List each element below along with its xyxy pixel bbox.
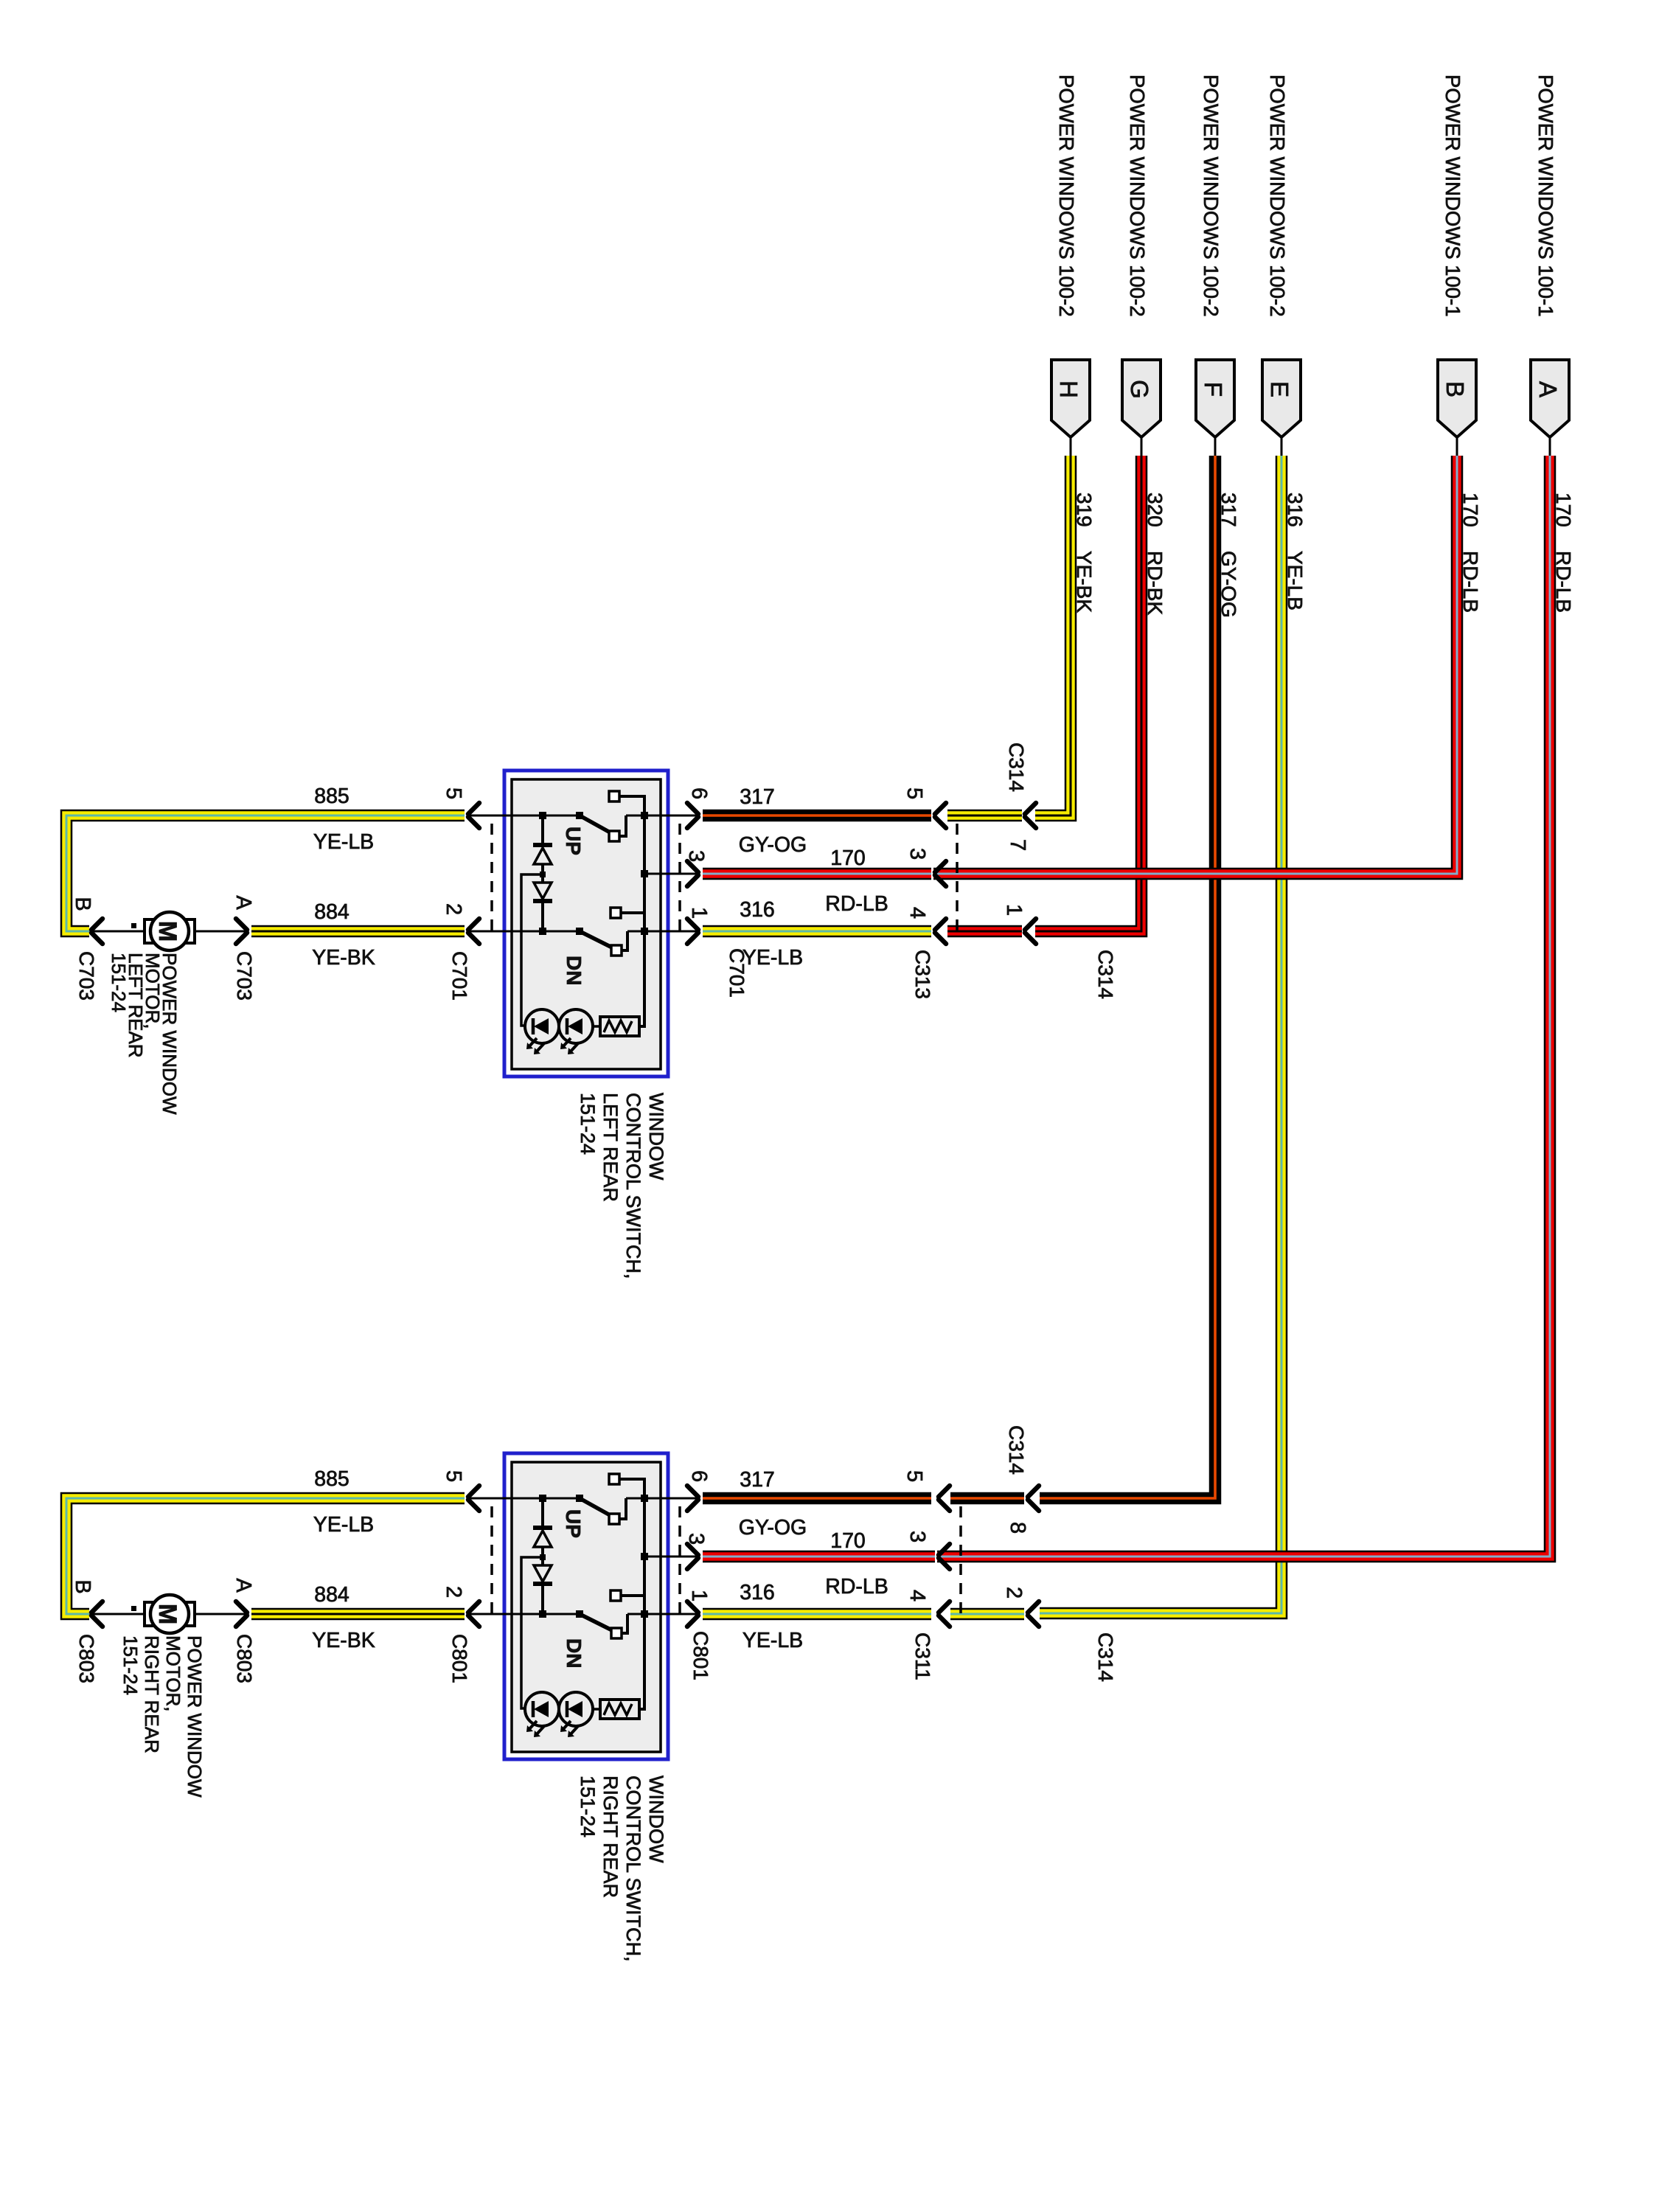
wire 320 RD-BK column from G: [1035, 456, 1141, 931]
svg-text:CONTROL SWITCH,: CONTROL SWITCH,: [622, 1093, 644, 1279]
in-line connector C311 pin 4 arrow: [905, 1590, 950, 1627]
svg-text:GY-OG: GY-OG: [739, 1516, 807, 1540]
wire 317 GY-OG switch pin6 to C313 (left): [703, 810, 931, 822]
in-line connector C314 pin 1 arrow (left): [1002, 904, 1036, 944]
in-line connector C311 pin 3 arrow: [905, 1531, 950, 1569]
svg-text:C314: C314: [1094, 950, 1117, 999]
switch pin 5 (right): [442, 1470, 504, 1511]
wire 885 YE-LB motor loop (left): [66, 815, 465, 931]
svg-text:317: 317: [740, 1468, 775, 1492]
svg-text:151-24: 151-24: [119, 1635, 142, 1695]
wire labels 885/884 (left): [312, 785, 375, 970]
svg-text:A: A: [232, 895, 255, 910]
svg-text:8: 8: [1006, 1522, 1029, 1534]
svg-text:A: A: [232, 1578, 255, 1593]
diode D1 (up limit) right: [533, 1495, 552, 1565]
switch pin 1 (left): [668, 907, 711, 944]
svg-text:M: M: [153, 1604, 181, 1624]
svg-text:170: 170: [830, 846, 866, 870]
wire 317 GY-OG column from F: [1040, 456, 1215, 1498]
component label: window control switch, left rear 151-24: [577, 1093, 667, 1279]
LED indicator 1 (right): [525, 1692, 559, 1737]
svg-text:885: 885: [314, 1467, 349, 1491]
svg-text:RIGHT REAR: RIGHT REAR: [599, 1775, 622, 1898]
in-line connector C314 pin 7 arrow (left): [1006, 803, 1036, 851]
switch pin 3 (right): [668, 1533, 708, 1569]
svg-text:1: 1: [1002, 904, 1026, 916]
connector name label C311: [911, 1632, 934, 1680]
off-page connector tag A (POWER WINDOWS 100-1): [1531, 360, 1569, 457]
switch connector C801 labels: [448, 1631, 712, 1683]
svg-text:UP: UP: [562, 1509, 585, 1538]
wire 170 RD-LB column from B: [933, 456, 1457, 874]
switch internal wiring (right): [469, 1479, 698, 1614]
wire 316 YE-LB switch pin1 to C313 (left): [703, 925, 931, 938]
svg-text:3: 3: [684, 850, 708, 862]
switch pin 6 (left): [668, 787, 711, 828]
svg-text:B: B: [1441, 381, 1469, 397]
svg-text:4: 4: [905, 1590, 929, 1601]
svg-text:YE-LB: YE-LB: [313, 830, 374, 854]
diode D2 (down limit) left: [533, 872, 552, 935]
svg-text:DN: DN: [563, 956, 585, 985]
switch connector C701 labels: [448, 948, 748, 1001]
power window motor, left rear: [91, 912, 247, 950]
svg-text:C311: C311: [911, 1632, 934, 1680]
net label POWER WINDOWS 100-2 for tag F: [1200, 74, 1222, 317]
off-page connector tag E (POWER WINDOWS 100-2): [1262, 360, 1301, 457]
wire label 316 YE-LB on column E: [1284, 493, 1307, 611]
svg-text:C801: C801: [689, 1631, 712, 1680]
svg-text:UP: UP: [562, 827, 585, 855]
svg-text:C703: C703: [75, 951, 98, 1001]
window control switch box outline (right rear): [504, 1453, 668, 1759]
svg-text:POWER WINDOWS 100-2: POWER WINDOWS 100-2: [1266, 74, 1289, 317]
svg-text:5: 5: [442, 787, 465, 799]
off-page connector tag F (POWER WINDOWS 100-2): [1196, 360, 1234, 457]
wire label 170 RD-LB on column B: [1459, 493, 1482, 613]
wire 170 RD-LB switch pin3 to C311 (right): [703, 1551, 935, 1563]
svg-text:C703: C703: [233, 951, 256, 1001]
wire labels 885/884 (right): [312, 1467, 375, 1652]
svg-text:G: G: [1126, 380, 1153, 399]
svg-text:DN: DN: [563, 1638, 585, 1668]
svg-text:151-24: 151-24: [108, 953, 130, 1012]
svg-text:YE-BK: YE-BK: [312, 1629, 375, 1652]
off-page connector tag G (POWER WINDOWS 100-2): [1122, 360, 1161, 457]
svg-text:YE-LB: YE-LB: [742, 1629, 803, 1652]
svg-text:6: 6: [687, 1470, 711, 1482]
connector C801 boundary dash (left and right): [492, 1506, 680, 1614]
wire 316 YE-LB column from E: [1040, 456, 1281, 1613]
motor connector C803 labels: [71, 1578, 256, 1683]
svg-text:CONTROL SWITCH,: CONTROL SWITCH,: [622, 1775, 644, 1962]
lamp feed branch (left): [521, 874, 543, 1026]
wire 319 YE-BK link C313-C314 (left): [947, 810, 1022, 822]
svg-text:B: B: [71, 1579, 94, 1593]
svg-text:5: 5: [902, 787, 926, 799]
wire label 320 RD-BK on column G: [1144, 493, 1166, 615]
svg-text:F: F: [1200, 382, 1227, 397]
svg-text:151-24: 151-24: [577, 1775, 599, 1837]
svg-text:3: 3: [905, 848, 929, 860]
svg-text:2: 2: [1002, 1587, 1026, 1599]
svg-text:POWER WINDOWS 100-2: POWER WINDOWS 100-2: [1200, 74, 1222, 317]
diode D2 (down limit) right: [533, 1554, 552, 1618]
net label POWER WINDOWS 100-1 for tag B: [1441, 74, 1464, 317]
svg-text:3: 3: [684, 1533, 708, 1545]
LED indicator 2 (left): [559, 1009, 593, 1054]
svg-text:C801: C801: [448, 1634, 471, 1683]
svg-text:MOTOR,: MOTOR,: [162, 1635, 184, 1712]
wire label 317 GY-OG on column F: [1217, 493, 1240, 618]
svg-text:5: 5: [442, 1470, 465, 1482]
diode D1 (up limit) left: [533, 812, 552, 883]
svg-text:LEFT REAR: LEFT REAR: [599, 1093, 622, 1202]
component label: power window motor, right rear 151-24: [119, 1635, 206, 1798]
svg-text:6: 6: [687, 787, 711, 799]
svg-text:GY-OG: GY-OG: [739, 833, 807, 857]
svg-text:RD-LB: RD-LB: [825, 892, 888, 916]
wire 885 YE-LB motor loop (right): [66, 1498, 465, 1614]
wire labels 317/170/316 (right): [739, 1468, 888, 1652]
connector name labels C314 (left): [1005, 742, 1117, 999]
net label POWER WINDOWS 100-1 for tag A: [1534, 74, 1557, 317]
svg-text:C803: C803: [233, 1634, 256, 1683]
switch pin 6 (right): [668, 1470, 711, 1511]
svg-text:YE-LB: YE-LB: [313, 1513, 374, 1537]
svg-text:151-24: 151-24: [577, 1093, 599, 1155]
connector name label C313: [911, 950, 934, 999]
in-line connector C313 pin 4 arrow: [905, 907, 946, 944]
window control switch box outline (left rear): [504, 771, 668, 1077]
svg-text:4: 4: [905, 907, 929, 919]
svg-text:C701: C701: [448, 951, 471, 1001]
resistor (illumination dropping) right: [593, 1614, 644, 1719]
motor connector C703 labels: [71, 895, 256, 1001]
svg-text:C314: C314: [1005, 742, 1028, 792]
connector C701 boundary dash (left and right): [492, 824, 680, 931]
net label POWER WINDOWS 100-2 for tag G: [1126, 74, 1149, 317]
component label: power window motor, left rear 151-24: [108, 953, 181, 1115]
power window motor, right rear: [91, 1595, 247, 1633]
svg-text:WINDOW: WINDOW: [645, 1775, 667, 1863]
wire 317 GY-OG switch pin6 to C311 (right): [703, 1492, 931, 1505]
wire label 319 YE-BK on column H: [1073, 493, 1096, 613]
connector C311/C314 boundary dash: [959, 1506, 962, 1614]
svg-text:POWER WINDOWS 100-2: POWER WINDOWS 100-2: [1126, 74, 1149, 317]
wire 320 RD-BK link C313-C314 (left): [947, 925, 1022, 938]
switch pin 3 (left): [668, 850, 708, 886]
off-page connector tag H (POWER WINDOWS 100-2): [1051, 360, 1090, 457]
resistor (illumination dropping) left: [593, 931, 644, 1036]
switch pin 5 (left): [442, 787, 504, 828]
connector name labels C314 (right): [1005, 1425, 1117, 1682]
svg-text:170: 170: [830, 1529, 866, 1553]
in-line connector C314 pin 8 arrow (right): [1006, 1486, 1039, 1534]
svg-text:1: 1: [687, 1590, 711, 1601]
svg-text:RIGHT REAR: RIGHT REAR: [141, 1635, 163, 1753]
wire 884 YE-BK motor feed (right): [251, 1608, 465, 1621]
svg-text:YE-BK: YE-BK: [312, 946, 375, 970]
switch pin 2 (right): [442, 1586, 504, 1627]
svg-text:POWER WINDOWS 100-2: POWER WINDOWS 100-2: [1055, 74, 1078, 317]
LED indicator 1 (left): [525, 1009, 559, 1054]
svg-text:POWER WINDOWS 100-1: POWER WINDOWS 100-1: [1441, 74, 1464, 317]
wire 884 YE-BK motor feed (left): [251, 925, 465, 938]
svg-text:C314: C314: [1094, 1632, 1117, 1682]
svg-text:3: 3: [905, 1531, 929, 1543]
UP switch (right): [562, 1474, 648, 1538]
in-line connector C313 pin 3 arrow: [905, 848, 946, 886]
lamp feed branch (right): [521, 1557, 543, 1708]
switch pin 1 (right): [668, 1590, 711, 1627]
net label POWER WINDOWS 100-2 for tag E: [1266, 74, 1289, 317]
wire 170 RD-LB switch pin3 to C313 (left): [703, 868, 931, 880]
svg-text:2: 2: [442, 903, 465, 915]
wire label 170 RD-LB on column A: [1552, 493, 1575, 613]
wire 319 YE-BK column from H: [1035, 456, 1071, 815]
svg-text:316: 316: [740, 898, 775, 922]
svg-text:316: 316: [740, 1581, 775, 1604]
svg-text:C803: C803: [75, 1634, 98, 1683]
connector C313/C314 boundary dash: [956, 824, 959, 931]
svg-text:5: 5: [902, 1470, 926, 1482]
off-page connector tag B (POWER WINDOWS 100-1): [1438, 360, 1476, 457]
svg-text:E: E: [1266, 381, 1293, 397]
svg-text:M: M: [153, 921, 181, 942]
switch pin 2 (left): [442, 903, 504, 944]
svg-text:C313: C313: [911, 950, 934, 999]
svg-text:POWER WINDOWS 100-1: POWER WINDOWS 100-1: [1534, 74, 1557, 317]
svg-text:YE-LB: YE-LB: [742, 946, 803, 970]
svg-text:WINDOW: WINDOW: [645, 1093, 667, 1180]
svg-text:C314: C314: [1005, 1425, 1028, 1475]
svg-text:RD-LB: RD-LB: [825, 1575, 888, 1599]
DN switch (right): [563, 1553, 648, 1668]
DN switch (left): [563, 870, 648, 985]
svg-text:B: B: [71, 897, 94, 911]
wire 316 YE-LB link C311-C314 (right): [950, 1608, 1024, 1621]
svg-text:885: 885: [314, 785, 349, 808]
wire 170 RD-LB column from A: [937, 456, 1550, 1557]
svg-text:317: 317: [740, 785, 775, 809]
svg-text:A: A: [1534, 381, 1562, 397]
in-line connector C313 pin 5 arrow: [902, 787, 946, 828]
wire 316 YE-LB switch pin1 to C311 (right): [703, 1608, 931, 1621]
wire 317 GY-OG link C311-C314 (right): [950, 1492, 1024, 1505]
switch internal wiring (left): [469, 796, 698, 931]
component label: window control switch, right rear 151-24: [577, 1775, 667, 1962]
svg-text:7: 7: [1006, 839, 1029, 851]
in-line connector C314 pin 2 arrow (right): [1002, 1587, 1039, 1627]
UP switch (left): [562, 791, 648, 855]
svg-text:H: H: [1055, 380, 1082, 398]
in-line connector C311 pin 5 arrow: [902, 1470, 950, 1511]
svg-text:884: 884: [314, 1583, 349, 1607]
svg-text:1: 1: [687, 907, 711, 919]
wire labels 317/170/316 (left): [739, 785, 888, 970]
LED indicator 2 (right): [559, 1692, 593, 1737]
svg-text:2: 2: [442, 1586, 465, 1598]
svg-text:POWER WINDOW: POWER WINDOW: [184, 1635, 206, 1798]
net label POWER WINDOWS 100-2 for tag H: [1055, 74, 1078, 317]
svg-text:884: 884: [314, 900, 349, 924]
